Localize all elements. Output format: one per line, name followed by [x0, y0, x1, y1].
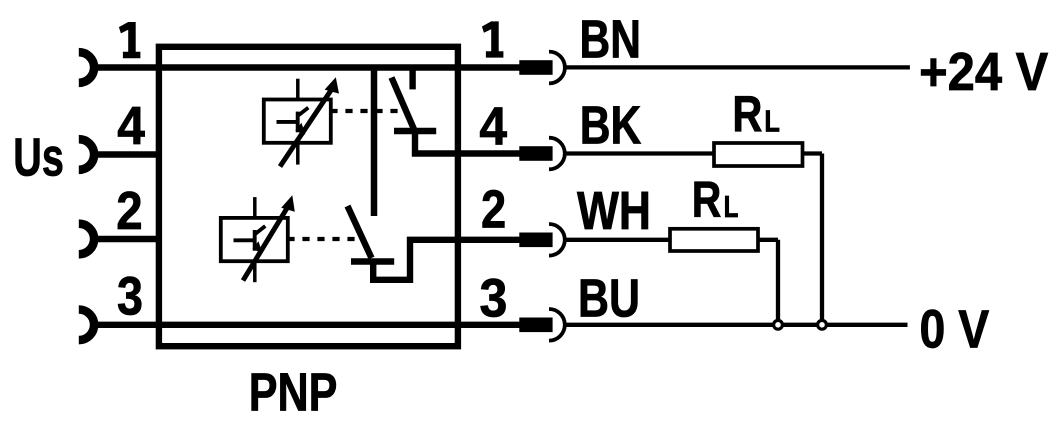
- svg-text:4: 4: [117, 96, 145, 156]
- svg-text:L: L: [724, 189, 739, 224]
- svg-text:Us: Us: [13, 127, 64, 187]
- svg-text:3: 3: [117, 266, 143, 326]
- svg-text:BU: BU: [578, 268, 640, 328]
- svg-text:2: 2: [481, 180, 506, 240]
- svg-text:L: L: [764, 104, 780, 139]
- svg-text:BN: BN: [580, 10, 641, 70]
- svg-text:3: 3: [480, 268, 508, 328]
- svg-text:+24 V: +24 V: [919, 42, 1048, 102]
- svg-text:4: 4: [479, 96, 507, 156]
- svg-text:R: R: [692, 171, 722, 228]
- svg-text:WH: WH: [577, 181, 651, 241]
- svg-text:2: 2: [116, 181, 142, 241]
- svg-text:BK: BK: [580, 95, 642, 155]
- svg-text:0 V: 0 V: [920, 300, 990, 360]
- svg-text:R: R: [732, 86, 762, 143]
- svg-text:PNP: PNP: [249, 362, 338, 422]
